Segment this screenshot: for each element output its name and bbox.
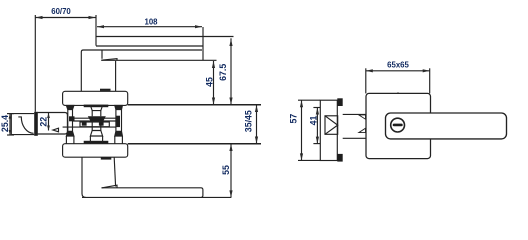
svg-text:60/70: 60/70	[51, 7, 71, 16]
svg-text:25.4: 25.4	[0, 115, 10, 132]
svg-text:108: 108	[144, 18, 158, 27]
svg-text:57: 57	[289, 114, 299, 124]
svg-text:41: 41	[308, 116, 318, 126]
svg-text:67.5: 67.5	[218, 64, 228, 81]
svg-text:22: 22	[38, 117, 48, 127]
svg-text:35/45: 35/45	[244, 110, 254, 132]
svg-text:45: 45	[205, 77, 215, 87]
svg-text:55: 55	[221, 165, 231, 175]
svg-text:65x65: 65x65	[387, 61, 409, 70]
